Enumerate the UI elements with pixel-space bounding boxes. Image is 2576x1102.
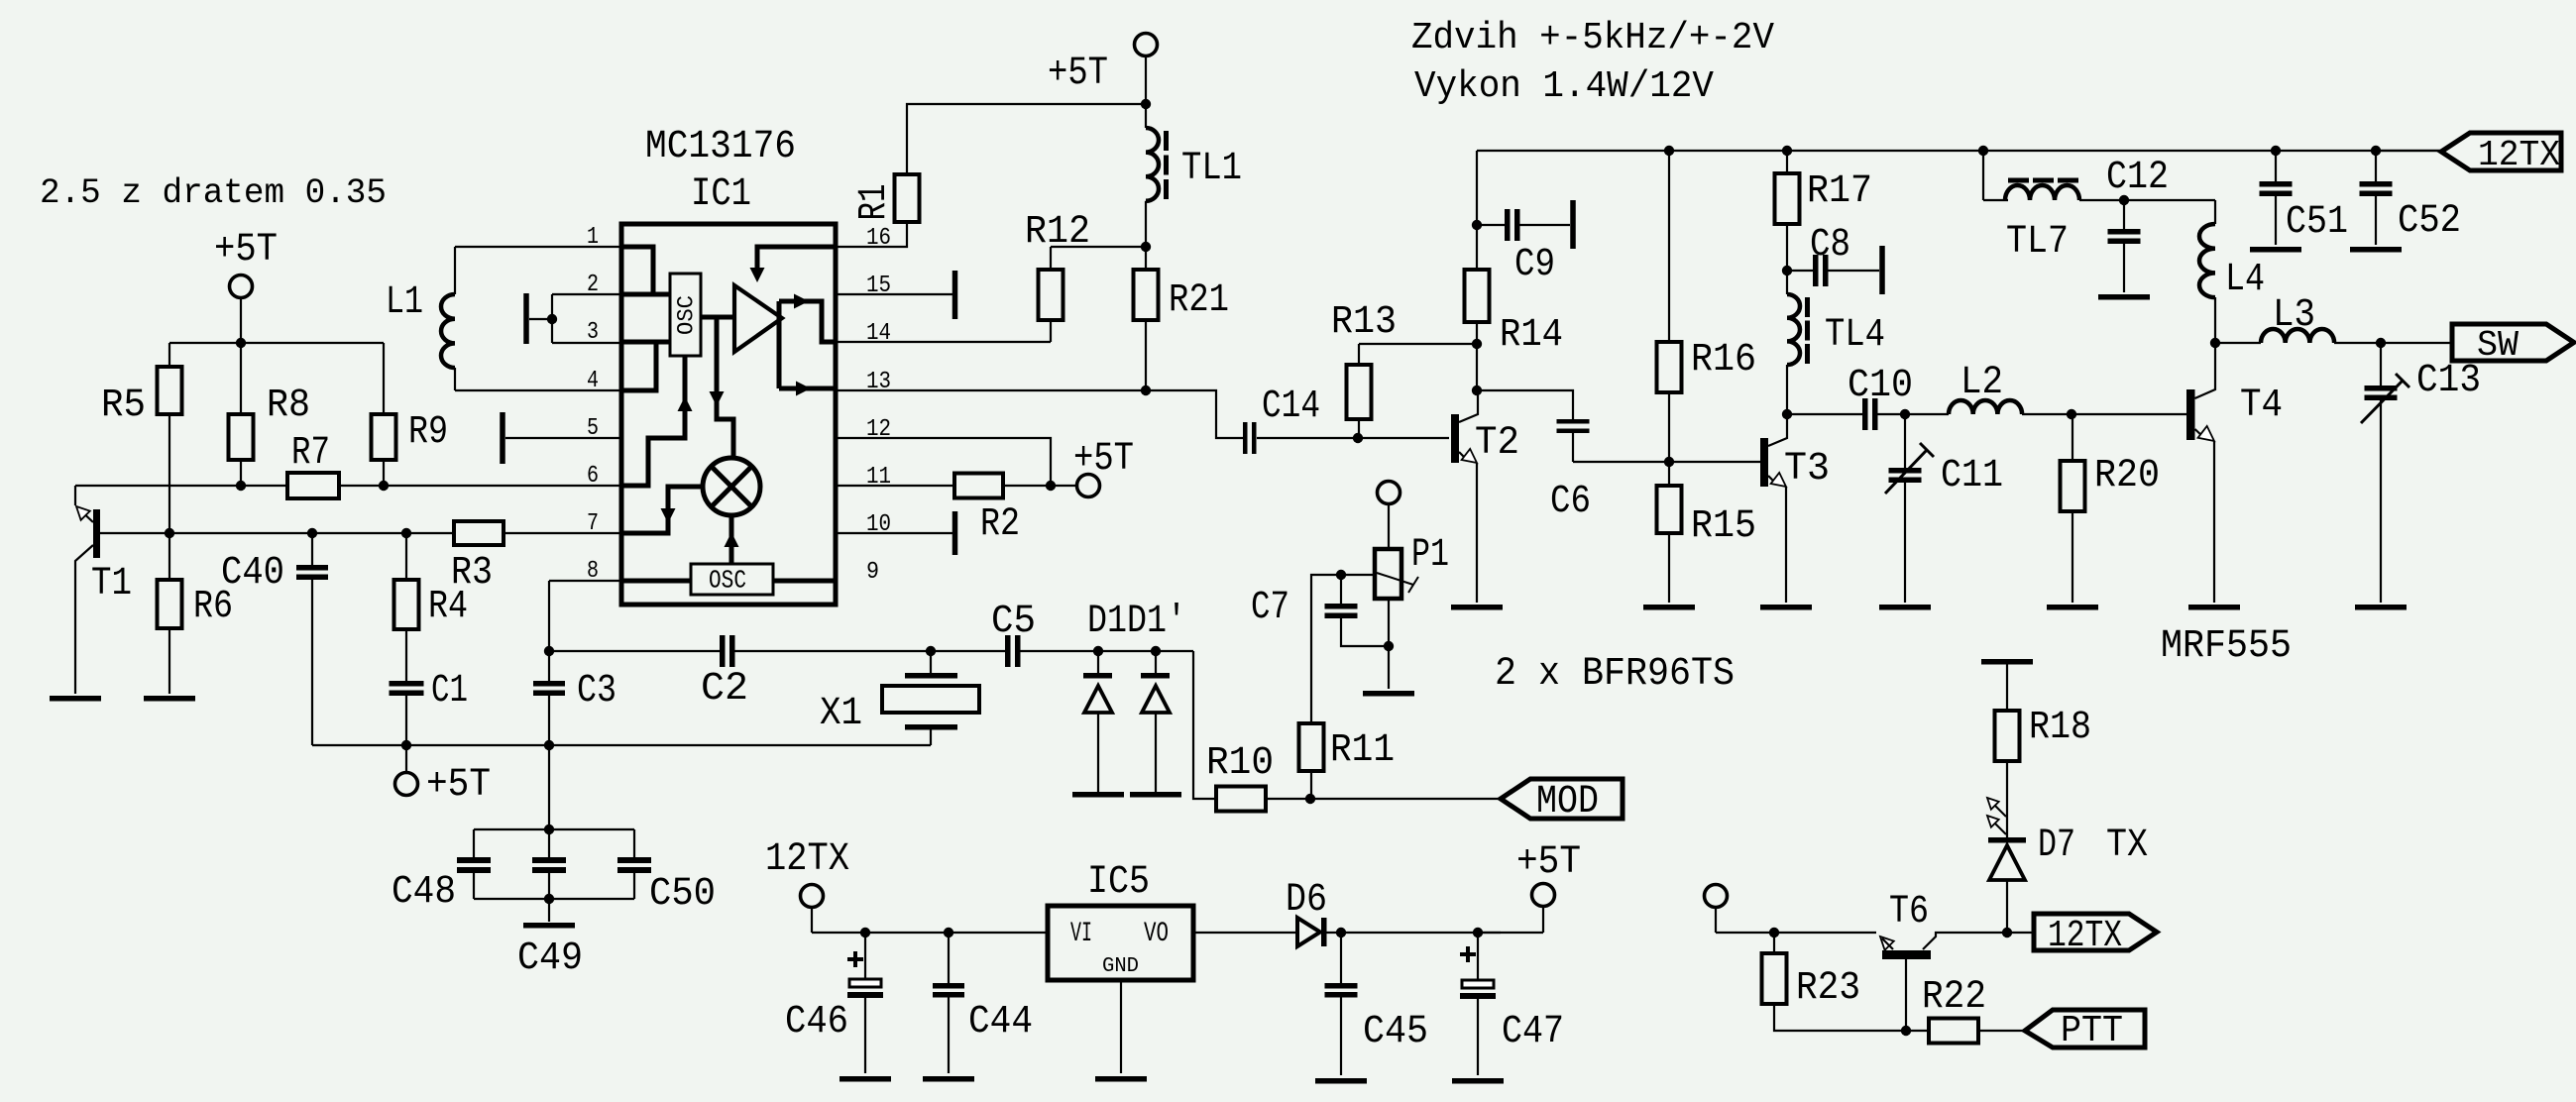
- svg-text:OSC: OSC: [674, 295, 700, 335]
- svg-text:P1: P1: [1411, 532, 1449, 577]
- svg-text:MC13176: MC13176: [645, 124, 796, 168]
- svg-text:C5: C5: [991, 599, 1036, 643]
- svg-text:12TX: 12TX: [765, 836, 849, 881]
- svg-text:C40: C40: [221, 550, 284, 595]
- svg-text:D6: D6: [1286, 877, 1327, 922]
- svg-text:T1: T1: [91, 561, 132, 606]
- svg-text:C2: C2: [701, 666, 748, 711]
- svg-text:R1: R1: [851, 184, 896, 221]
- svg-text:R2: R2: [980, 501, 1020, 546]
- svg-text:R11: R11: [1330, 727, 1395, 772]
- svg-text:C48: C48: [392, 869, 456, 914]
- svg-text:C1: C1: [431, 668, 468, 713]
- svg-text:C52: C52: [2398, 198, 2461, 243]
- svg-text:R7: R7: [291, 430, 330, 475]
- svg-text:MRF555: MRF555: [2161, 623, 2292, 668]
- svg-text:TL4: TL4: [1825, 312, 1885, 357]
- svg-text:C7: C7: [1251, 585, 1289, 629]
- svg-text:R4: R4: [428, 584, 468, 628]
- svg-text:12TX: 12TX: [2478, 135, 2560, 175]
- svg-text:OSC: OSC: [709, 567, 746, 596]
- svg-text:R21: R21: [1169, 277, 1229, 322]
- svg-text:R20: R20: [2094, 453, 2160, 497]
- svg-text:2: 2: [587, 272, 599, 298]
- svg-text:R9: R9: [408, 409, 448, 454]
- svg-text:2.5 z dratem 0.35: 2.5 z dratem 0.35: [40, 174, 387, 213]
- svg-text:R14: R14: [1500, 312, 1563, 357]
- svg-text:Vykon 1.4W/12V: Vykon 1.4W/12V: [1414, 65, 1714, 108]
- svg-text:R15: R15: [1691, 503, 1756, 548]
- svg-text:R18: R18: [2029, 705, 2091, 749]
- svg-text:L3: L3: [2273, 292, 2315, 337]
- svg-text:C11: C11: [1941, 453, 2003, 497]
- svg-text:R12: R12: [1025, 209, 1090, 254]
- svg-text:D1D1': D1D1': [1087, 599, 1186, 643]
- svg-text:5: 5: [587, 415, 599, 442]
- svg-text:GND: GND: [1102, 954, 1139, 978]
- svg-text:VO: VO: [1144, 919, 1169, 949]
- svg-text:MOD: MOD: [1536, 779, 1599, 824]
- svg-text:T4: T4: [2240, 383, 2283, 427]
- svg-text:C50: C50: [649, 871, 716, 916]
- svg-text:L1: L1: [386, 279, 423, 324]
- svg-text:R5: R5: [101, 383, 146, 427]
- svg-text:L4: L4: [2225, 257, 2265, 301]
- svg-text:C13: C13: [2416, 358, 2481, 402]
- svg-text:T2: T2: [1475, 420, 1519, 465]
- svg-text:C10: C10: [1848, 363, 1913, 407]
- svg-text:9: 9: [866, 559, 879, 586]
- svg-text:C46: C46: [785, 999, 848, 1044]
- svg-text:R8: R8: [267, 383, 310, 427]
- svg-text:C12: C12: [2106, 155, 2169, 199]
- svg-text:TL1: TL1: [1181, 146, 1242, 190]
- svg-text:C51: C51: [2286, 199, 2348, 244]
- svg-text:L2: L2: [1960, 360, 2003, 404]
- svg-text:IC1: IC1: [691, 171, 751, 216]
- svg-text:R23: R23: [1796, 965, 1860, 1010]
- svg-text:12TX: 12TX: [2048, 915, 2122, 957]
- svg-text:T6: T6: [1889, 889, 1929, 934]
- svg-text:T3: T3: [1784, 446, 1830, 491]
- svg-text:+5T: +5T: [1048, 51, 1108, 95]
- svg-text:TL7: TL7: [2006, 219, 2069, 264]
- svg-text:VI: VI: [1070, 919, 1092, 949]
- svg-text:3: 3: [587, 319, 599, 346]
- svg-text:D7: D7: [2038, 823, 2075, 867]
- svg-text:C49: C49: [517, 936, 583, 980]
- svg-text:8: 8: [587, 558, 599, 585]
- svg-text:C9: C9: [1514, 242, 1555, 286]
- svg-text:X1: X1: [820, 691, 862, 735]
- svg-text:+5T: +5T: [1073, 436, 1134, 481]
- svg-text:Zdvih +-5kHz/+-2V: Zdvih +-5kHz/+-2V: [1411, 17, 1774, 59]
- svg-text:C6: C6: [1550, 479, 1591, 523]
- svg-text:SW: SW: [2477, 325, 2519, 366]
- svg-text:PTT: PTT: [2061, 1010, 2123, 1052]
- svg-text:C3: C3: [577, 668, 616, 713]
- svg-text:6: 6: [587, 463, 599, 490]
- svg-text:R22: R22: [1922, 974, 1986, 1019]
- svg-text:C47: C47: [1502, 1009, 1564, 1053]
- svg-text:+5T: +5T: [214, 227, 278, 272]
- svg-text:+5T: +5T: [426, 762, 491, 807]
- svg-text:2 x BFR96TS: 2 x BFR96TS: [1495, 651, 1735, 696]
- svg-text:C8: C8: [1810, 222, 1850, 267]
- svg-text:R13: R13: [1331, 299, 1397, 344]
- svg-text:TX: TX: [2106, 823, 2148, 867]
- svg-text:R16: R16: [1691, 337, 1756, 382]
- svg-text:R17: R17: [1807, 168, 1872, 213]
- svg-text:IC5: IC5: [1087, 859, 1150, 904]
- svg-text:C45: C45: [1363, 1009, 1428, 1053]
- svg-text:+5T: +5T: [1516, 839, 1581, 884]
- svg-text:7: 7: [587, 510, 599, 537]
- svg-text:C14: C14: [1262, 384, 1320, 428]
- svg-text:R10: R10: [1206, 740, 1274, 785]
- svg-text:C44: C44: [968, 999, 1033, 1044]
